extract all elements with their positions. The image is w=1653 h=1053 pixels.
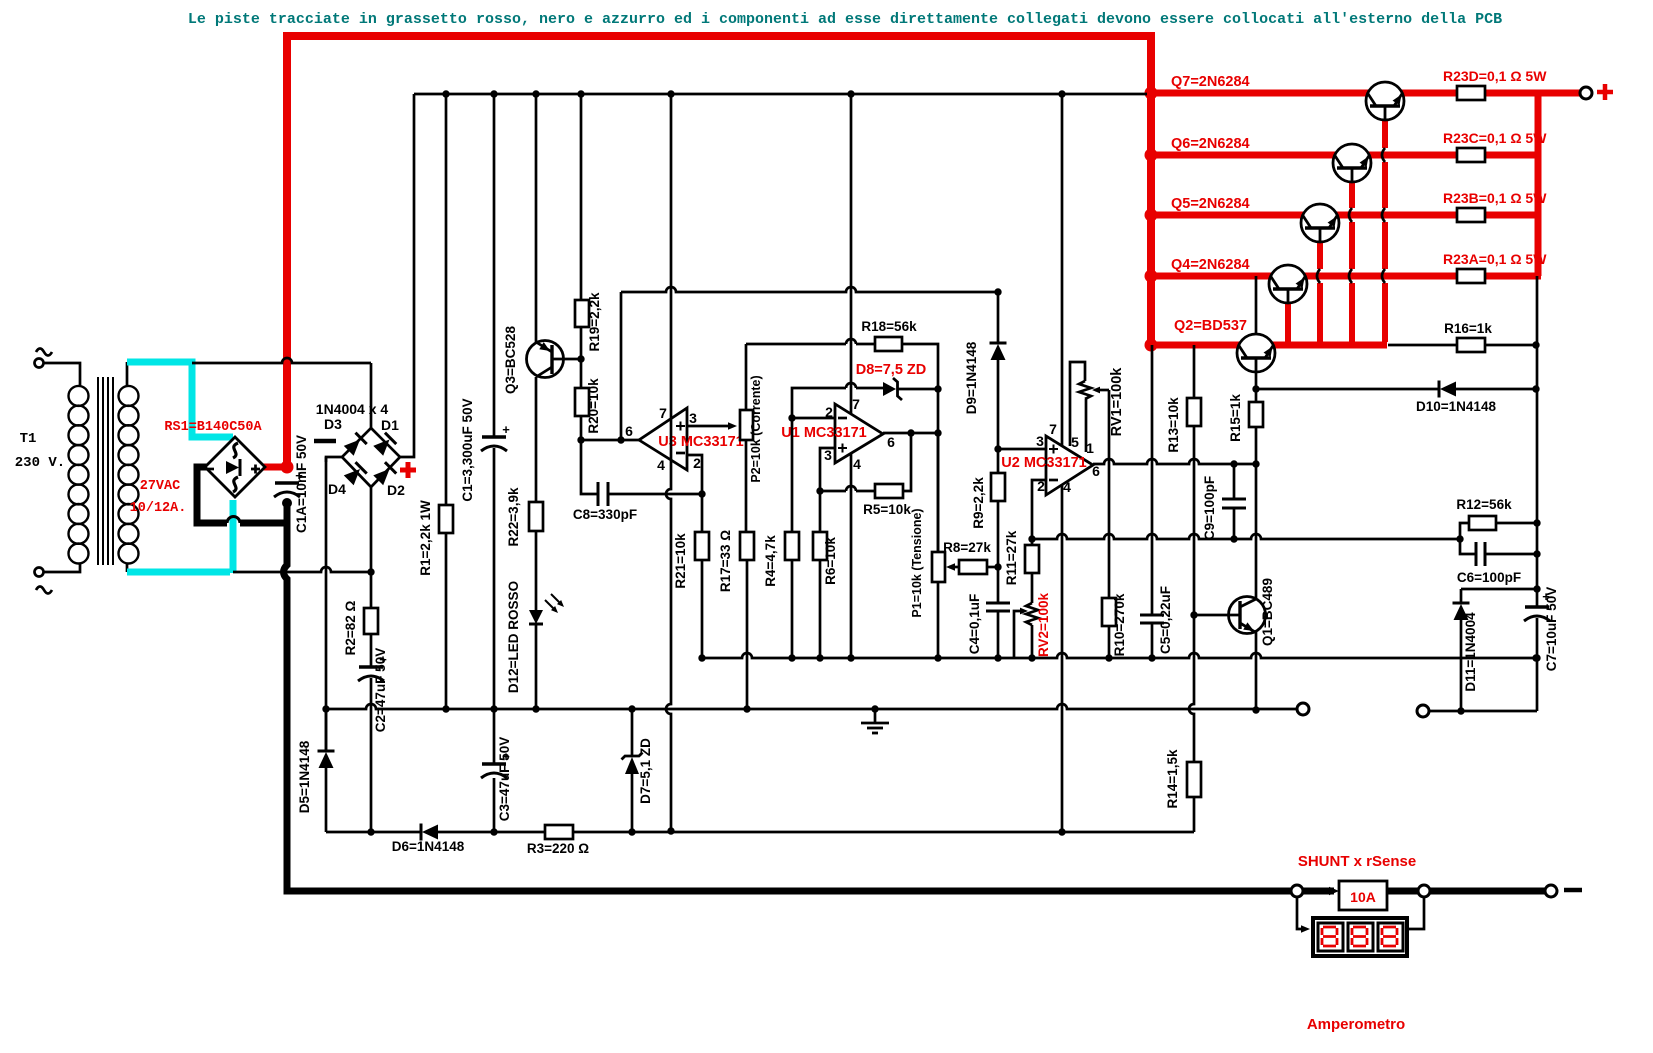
node top bus x=581 xyxy=(577,90,584,97)
resistor R6 10k xyxy=(813,532,827,560)
svg-text:D12=LED ROSSO: D12=LED ROSSO xyxy=(506,581,521,693)
wire secondary bottom AC xyxy=(233,567,371,572)
LED D12 rosso xyxy=(529,610,543,624)
potentiometer P2 10k Corrente xyxy=(740,410,753,440)
svg-text:7: 7 xyxy=(1049,421,1057,437)
ground symbol xyxy=(874,709,877,723)
resistor R22 3,9k xyxy=(529,502,543,531)
wire hop Q5 base over row y=276 xyxy=(1317,269,1320,283)
svg-text:R10=270k: R10=270k xyxy=(1112,593,1127,656)
wire D-bridge plus to rail xyxy=(400,94,414,457)
wire secondary bottom stub xyxy=(126,563,129,572)
node U1 supply to common bus xyxy=(847,654,854,661)
wire red Q7 collector row xyxy=(1151,90,1368,97)
wire sense right to right bus xyxy=(1429,710,1537,713)
node R1 ground xyxy=(442,705,449,712)
wire R6 top xyxy=(819,491,822,532)
resistor R19 2,2k xyxy=(575,300,589,327)
node R10 bus xyxy=(1105,654,1112,661)
svg-text:R23B=0,1 Ω 5W: R23B=0,1 Ω 5W xyxy=(1443,190,1547,206)
wire U1 supply column xyxy=(850,94,853,658)
terminal mains top xyxy=(35,359,44,368)
node feedback to D9 xyxy=(994,288,1001,295)
svg-text:6: 6 xyxy=(1092,463,1100,479)
node R4 bus xyxy=(788,654,795,661)
svg-text:R13=10k: R13=10k xyxy=(1166,397,1181,453)
op-amp U2 MC33171 xyxy=(1046,436,1093,495)
node top bus x=851 xyxy=(847,90,854,97)
node U3 supply to lower bus xyxy=(667,827,674,834)
wire C4 top xyxy=(997,567,1000,603)
trimmer RV2 100k xyxy=(1031,573,1034,603)
node C1 ground xyxy=(490,705,497,712)
svg-text:R23D=0,1 Ω 5W: R23D=0,1 Ω 5W xyxy=(1443,68,1547,84)
svg-text:Le piste tracciate in grassett: Le piste tracciate in grassetto rosso, n… xyxy=(188,11,1502,28)
node D5 top xyxy=(322,705,329,712)
wire R2 C2 column xyxy=(370,572,373,608)
svg-text:5: 5 xyxy=(1071,434,1079,450)
wire D9 top xyxy=(997,292,1000,343)
wire Q3 collector to R22 xyxy=(535,377,538,502)
wire U2 pin2 net to R12/C6 xyxy=(1032,534,1460,539)
svg-text:R1=2,2k 1W: R1=2,2k 1W xyxy=(418,500,433,576)
node U1 output to P1 column xyxy=(934,429,941,436)
svg-text:2: 2 xyxy=(825,404,833,420)
svg-text:D7=5,1 ZD: D7=5,1 ZD xyxy=(638,738,653,804)
wire lower bus mid xyxy=(438,831,545,834)
svg-text:R15=1k: R15=1k xyxy=(1228,394,1243,442)
wire red Q4 emitter to R23A xyxy=(1305,273,1457,280)
svg-text:RV1=100k: RV1=100k xyxy=(1109,367,1125,437)
wire red Q7 base drop xyxy=(1382,120,1388,148)
wire common bus xyxy=(702,653,1536,658)
wire hop R18 over U1 supply xyxy=(846,339,856,344)
node C9 top xyxy=(1230,460,1237,467)
wire P1 wiper to R8 xyxy=(949,566,959,569)
node AC bottom junction xyxy=(367,568,374,575)
svg-text:6: 6 xyxy=(625,423,633,439)
wire Q1 base xyxy=(1194,614,1240,617)
capacitor C1A 10mF xyxy=(275,481,299,485)
svg-text:R18=56k: R18=56k xyxy=(861,319,917,334)
wire red Q2 base bus xyxy=(1151,342,1239,349)
wire U3 feedback up xyxy=(620,292,623,440)
diode D10 1N4148 xyxy=(1438,381,1441,398)
node D7 top xyxy=(628,705,635,712)
wire R14 bottom xyxy=(1193,797,1196,832)
capacitor C6 100pF xyxy=(1475,542,1478,566)
wire R9 to R8 node xyxy=(997,501,1000,567)
svg-text:6: 6 xyxy=(887,434,895,450)
svg-text:D3: D3 xyxy=(324,416,342,432)
wire R17 to ground bus xyxy=(746,560,749,709)
node D8 cathode junction xyxy=(934,385,941,392)
wire thick black RS1 minus xyxy=(197,467,227,523)
svg-text:C1A=10mF 50V: C1A=10mF 50V xyxy=(294,435,309,533)
zener D8 7,5V xyxy=(883,382,896,396)
node R16 right bus xyxy=(1532,341,1539,348)
wire D8 right xyxy=(897,388,938,391)
capacitor C9 100pF xyxy=(1222,498,1246,501)
svg-text:R3=220 Ω: R3=220 Ω xyxy=(527,841,589,856)
wire C6 left xyxy=(1460,539,1476,554)
node C2 lower bus xyxy=(367,828,374,835)
diode D11 1N4004 xyxy=(1460,589,1463,603)
wire cyan secondary bottom xyxy=(127,569,230,576)
svg-text:27VAC: 27VAC xyxy=(140,479,181,494)
node D11 top right bus xyxy=(1533,585,1540,592)
node R12 right bus xyxy=(1533,519,1540,526)
wire R2 to C2 xyxy=(370,634,373,667)
node R17 ground xyxy=(743,705,750,712)
node top bus x=671 xyxy=(667,90,674,97)
trimmer RV1 100k xyxy=(1079,381,1091,399)
label bridge minus mark xyxy=(314,439,336,444)
wire thick black C1A minus down xyxy=(284,503,1335,891)
wire C3 column xyxy=(493,709,496,764)
svg-text:R19=2,2k: R19=2,2k xyxy=(587,292,602,351)
wire C5 bottom xyxy=(1151,623,1154,658)
wire Q2 base to D10 xyxy=(1256,388,1439,391)
wire RV1 wiper xyxy=(1095,389,1109,392)
node U1 output R5 tap xyxy=(907,429,914,436)
node C8 to R21/pin2 xyxy=(698,490,705,497)
wire mains top xyxy=(44,363,80,386)
wire C9 top xyxy=(1233,464,1236,499)
svg-text:U1 MC33171: U1 MC33171 xyxy=(781,425,866,441)
node common bus right end xyxy=(1532,654,1539,661)
wire red Q7 emitter to R23D xyxy=(1402,90,1457,97)
svg-text:P2=10k (Corrente): P2=10k (Corrente) xyxy=(749,375,763,482)
svg-text:Q5=2N6284: Q5=2N6284 xyxy=(1171,196,1250,212)
svg-text:3: 3 xyxy=(689,410,697,426)
wire D11 top xyxy=(1461,588,1537,591)
potentiometer P1 10k Tensione xyxy=(932,552,945,582)
node D12 ground xyxy=(532,705,539,712)
wire hop Q7 base over row y=155 xyxy=(1382,148,1385,162)
resistor R16 1k xyxy=(1457,338,1485,352)
diode D3 xyxy=(343,433,367,457)
svg-text:2: 2 xyxy=(693,455,701,471)
diode D5 1N4148 xyxy=(325,709,328,751)
op-amp U1 MC33171 xyxy=(835,404,883,463)
node raw+ at bridge output xyxy=(281,461,294,474)
node red bus Q4 row xyxy=(1145,270,1158,283)
svg-text:D6=1N4148: D6=1N4148 xyxy=(392,839,465,854)
svg-text:3: 3 xyxy=(824,447,832,463)
node C1A minus xyxy=(282,498,292,508)
svg-text:R14=1,5k: R14=1,5k xyxy=(1165,749,1180,808)
wire red Q5 base drop xyxy=(1317,242,1323,269)
wire ground bus xyxy=(326,704,1297,709)
wire lower bus left xyxy=(326,831,421,834)
node pin2 junction xyxy=(788,414,795,421)
transistor Q2 BD537 xyxy=(1237,334,1275,372)
label bridge plus mark xyxy=(400,462,416,478)
label output - xyxy=(1564,888,1582,893)
wire red R23B to right bus xyxy=(1485,212,1541,219)
node R8 R9 C4 xyxy=(994,563,1001,570)
wire to R14 xyxy=(1189,615,1194,762)
wire D-bridge bottom vertical xyxy=(370,487,373,572)
wire U3 pin2 xyxy=(687,455,702,494)
node Q2 base R15 D10 xyxy=(1252,385,1259,392)
wire red RS1 plus stub xyxy=(263,464,287,471)
wire R11 xyxy=(1031,539,1034,545)
resistor R2 82ohm xyxy=(364,608,378,634)
node Q1 base xyxy=(1190,611,1197,618)
transistor Q3 BC528 xyxy=(527,341,564,378)
svg-text:D5=1N4148: D5=1N4148 xyxy=(297,740,312,813)
op-amp U3 MC33171 xyxy=(639,408,687,470)
wire R5 left xyxy=(820,490,875,493)
svg-text:4: 4 xyxy=(853,456,861,472)
svg-text:R12=56k: R12=56k xyxy=(1456,497,1512,512)
svg-text:R17=33 Ω: R17=33 Ω xyxy=(718,530,733,592)
wire red Q5 emitter to R23B xyxy=(1337,212,1457,219)
wire cyan RS1 bottom AC xyxy=(230,500,237,573)
svg-text:10A: 10A xyxy=(1350,889,1376,905)
resistor R8 27k xyxy=(959,560,987,574)
wire red output + vertical bus xyxy=(1535,90,1542,276)
wire ammeter right xyxy=(1409,897,1424,929)
diode D9 1N4148 xyxy=(990,342,1007,345)
resistor R13 10k xyxy=(1187,398,1201,426)
wire C1 top xyxy=(493,94,496,437)
wire R21 top xyxy=(701,494,704,532)
resistor R4 4,7k xyxy=(785,532,799,560)
node R21 bus xyxy=(698,654,705,661)
resistor R12 56k xyxy=(1469,516,1496,530)
wire R12 left xyxy=(1460,523,1469,539)
resistor R17 33ohm xyxy=(740,532,754,560)
wire R15 bottom xyxy=(1255,427,1258,464)
svg-text:7: 7 xyxy=(852,396,860,412)
wire R5 right xyxy=(903,433,911,491)
svg-text:Q3=BC528: Q3=BC528 xyxy=(503,326,518,394)
terminal sense right xyxy=(1417,705,1429,717)
svg-text:R23A=0,1 Ω 5W: R23A=0,1 Ω 5W xyxy=(1443,251,1547,267)
resistor R9 2,2k xyxy=(991,473,1005,501)
wire R15 top xyxy=(1255,389,1258,402)
wire R21 to bus xyxy=(701,560,704,658)
wire lower bus right xyxy=(573,831,1194,834)
svg-text:R23C=0,1 Ω 5W: R23C=0,1 Ω 5W xyxy=(1443,130,1547,146)
wire P1 top xyxy=(937,433,940,554)
svg-text:C8=330pF: C8=330pF xyxy=(573,507,637,522)
svg-text:D1: D1 xyxy=(381,417,399,433)
wire R8 right xyxy=(987,566,998,569)
node RV2 bus xyxy=(1028,654,1035,661)
wire C4 bottom xyxy=(997,611,1000,658)
ammeter display xyxy=(1313,918,1407,956)
wire hop Q7 base over row y=276 xyxy=(1382,269,1385,283)
wire P2 top xyxy=(745,344,748,410)
wire C1 bottom xyxy=(493,448,496,709)
wire R19 top xyxy=(580,94,583,300)
resistor R23B xyxy=(1457,208,1485,222)
wire lower bus to R14 xyxy=(1193,797,1195,832)
resistor R21 10k xyxy=(695,532,709,560)
node U2 supply to lower bus xyxy=(1058,828,1065,835)
node P1 bus xyxy=(934,654,941,661)
node top bus x=1062 xyxy=(1058,90,1065,97)
svg-text:SHUNT x rSense: SHUNT x rSense xyxy=(1298,853,1416,870)
wire C2 bottom xyxy=(370,678,373,832)
wire right bus lower xyxy=(1536,618,1539,711)
wire ammeter left xyxy=(1297,897,1303,929)
resistor R23A xyxy=(1457,269,1485,283)
svg-text:C5=0,22uF: C5=0,22uF xyxy=(1158,586,1173,654)
node U3 feedback tap xyxy=(617,436,624,443)
resistor R14 1,5k xyxy=(1187,762,1201,797)
transformer T1 secondary winding xyxy=(119,386,139,406)
svg-text:R21=10k: R21=10k xyxy=(673,533,688,589)
svg-text:Q1=BC489: Q1=BC489 xyxy=(1260,578,1275,646)
terminal output + xyxy=(1580,87,1592,99)
wire red Q4 base drop xyxy=(1285,303,1291,342)
wire R18 right xyxy=(902,344,938,554)
wire red Q6 base drop xyxy=(1349,182,1355,208)
wire Q2 collector to Q4 row xyxy=(1255,276,1258,335)
wire R13 top xyxy=(1193,345,1196,398)
svg-text:10/12A.: 10/12A. xyxy=(130,501,187,516)
wire D12 bottom xyxy=(535,624,538,709)
svg-text:C9=100pF: C9=100pF xyxy=(1202,476,1217,540)
node Q1 emitter ground bus xyxy=(1252,706,1259,713)
svg-text:R6=10k: R6=10k xyxy=(823,537,838,585)
capacitor C5 0,22uF xyxy=(1140,614,1164,617)
svg-text:RV2=100k: RV2=100k xyxy=(1036,593,1051,657)
transistor Q6 2N6284 xyxy=(1333,144,1371,182)
svg-text:C2=47uF 50V: C2=47uF 50V xyxy=(373,648,388,732)
wire pin3 net xyxy=(820,448,835,491)
node U2 pin3 net xyxy=(994,445,1001,452)
terminal shunt left xyxy=(1291,885,1303,897)
svg-text:C1=3,300uF 50V: C1=3,300uF 50V xyxy=(460,398,475,501)
wire R12 right xyxy=(1496,522,1537,525)
svg-text:R2=82 Ω: R2=82 Ω xyxy=(343,600,358,655)
node C6 right bus xyxy=(1533,550,1540,557)
wire R22 to D12 xyxy=(535,531,538,610)
wire R1 bottom xyxy=(445,533,448,709)
wire RV2 wiper xyxy=(1014,611,1024,658)
svg-text:R16=1k: R16=1k xyxy=(1444,321,1492,336)
wire red Q4 collector row xyxy=(1151,273,1271,280)
wire U2 output xyxy=(1093,459,1256,464)
wire R16 right xyxy=(1485,344,1536,347)
node R11 top xyxy=(1028,535,1035,542)
wire hop Q7 base over row y=215 xyxy=(1382,208,1385,222)
wire Q1 emitter xyxy=(1255,632,1258,710)
wire U3 feedback top xyxy=(621,287,998,292)
node R12 C6 left xyxy=(1456,535,1463,542)
svg-text:230 V.: 230 V. xyxy=(15,455,65,471)
capacitor C2 47uF xyxy=(359,665,383,669)
svg-text:C3=47uF 50V: C3=47uF 50V xyxy=(497,737,512,821)
svg-text:D9=1N4148: D9=1N4148 xyxy=(964,341,979,414)
wire C6 right xyxy=(1485,553,1537,556)
shunt box 10A xyxy=(1339,881,1387,910)
wire red R23A to right bus xyxy=(1485,273,1541,280)
resistor R18 56k xyxy=(875,337,902,351)
label output + xyxy=(1597,84,1613,100)
svg-text:P1=10k (Tensione): P1=10k (Tensione) xyxy=(910,508,924,617)
capacitor C8 330pF xyxy=(597,482,600,506)
resistor R10 270k xyxy=(1102,598,1116,626)
node ground stub xyxy=(871,705,878,712)
terminal mains bottom xyxy=(35,568,44,577)
wire red R23C to right bus xyxy=(1485,152,1541,159)
wire Q3 emitter from bus xyxy=(535,94,538,342)
wire red bus to common via C5 column xyxy=(1151,345,1154,615)
wire U1 pin2 net xyxy=(792,388,846,418)
wire top supply bus xyxy=(414,93,1147,96)
wire R20 bottom xyxy=(580,416,583,440)
node output to R15/Q1 xyxy=(1252,460,1259,467)
svg-text:D8=7,5 ZD: D8=7,5 ZD xyxy=(856,362,927,378)
wire D9 to U2 pin3 xyxy=(997,360,1000,449)
node red bus Q7 row xyxy=(1145,87,1158,100)
wire pin2 to U1 xyxy=(792,417,835,420)
diode D1 xyxy=(373,433,397,457)
wire RV1 wiper to R10 xyxy=(1108,390,1111,598)
wire R4 bottom xyxy=(791,560,794,658)
diode D7 zener 5,1 xyxy=(631,709,634,756)
wire P1 bottom xyxy=(937,582,940,658)
wire pin3 to U2 xyxy=(998,448,1046,451)
svg-text:3: 3 xyxy=(1036,433,1044,449)
wire R13 to Q1 base node xyxy=(1193,426,1196,615)
svg-text:R11=27k: R11=27k xyxy=(1004,530,1019,585)
node U3 output corner xyxy=(577,436,584,443)
wire R10 bottom xyxy=(1108,626,1111,658)
wire C3 bottom xyxy=(493,778,496,832)
svg-text:Q6=2N6284: Q6=2N6284 xyxy=(1171,136,1250,152)
resistor R23D xyxy=(1457,86,1485,100)
capacitor C1 3300uF xyxy=(482,435,506,439)
svg-text:T1: T1 xyxy=(20,431,37,447)
capacitor C4 0,1uF xyxy=(986,602,1010,605)
svg-text:U2 MC33171: U2 MC33171 xyxy=(1001,455,1086,471)
wire D10 to right bus xyxy=(1456,388,1536,391)
wire R16 left xyxy=(1388,344,1457,347)
wire P2 bottom to R17 xyxy=(745,440,748,532)
svg-text:R9=2,2k: R9=2,2k xyxy=(971,477,986,529)
wire D-bridge minus down xyxy=(325,457,328,751)
node R6 bus xyxy=(816,654,823,661)
wire R4 top xyxy=(791,418,794,532)
svg-text:+: + xyxy=(502,422,510,437)
svg-text:D10=1N4148: D10=1N4148 xyxy=(1416,399,1496,414)
transistor Q5 2N6284 xyxy=(1301,204,1339,242)
node C7 common bus xyxy=(1533,654,1540,661)
resistor R1 2,2k 1W xyxy=(439,505,453,533)
svg-text:RS1=B140C50A: RS1=B140C50A xyxy=(164,420,262,435)
wire R19 to R20 xyxy=(580,327,583,388)
node C4 bus xyxy=(994,654,1001,661)
capacitor C7 10uF xyxy=(1525,605,1549,609)
resistor R3 220ohm xyxy=(545,825,573,839)
wire red Q2 emitter to base bus xyxy=(1273,342,1387,349)
wire Q1 collector xyxy=(1255,464,1258,599)
node C5 bus xyxy=(1148,654,1155,661)
node Q3 base junction xyxy=(577,355,584,362)
wire red Q6 emitter to R23C xyxy=(1369,152,1457,159)
svg-text:Q7=2N6284: Q7=2N6284 xyxy=(1171,74,1250,90)
resistor R23C xyxy=(1457,148,1485,162)
node R5 to pin3 xyxy=(816,487,823,494)
